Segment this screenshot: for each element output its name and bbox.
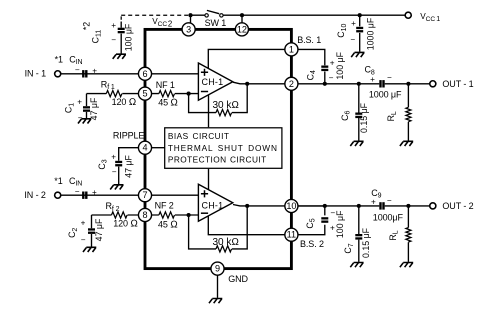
svg-text:−: − (387, 196, 392, 205)
svg-text:NF 2: NF 2 (155, 200, 174, 210)
svg-text:NF 1: NF 1 (156, 80, 175, 90)
svg-text:CIN: CIN (69, 176, 82, 188)
svg-text:C5: C5 (305, 218, 317, 228)
svg-text:−: − (387, 73, 392, 82)
svg-text:+: + (92, 188, 97, 197)
svg-text:−: − (112, 168, 117, 177)
svg-text:6: 6 (142, 69, 147, 79)
svg-text:OUT - 1: OUT - 1 (442, 79, 473, 89)
svg-text:+: + (92, 67, 97, 76)
svg-text:+: + (351, 19, 356, 28)
svg-text:+: + (371, 198, 376, 207)
svg-text:−: − (75, 187, 80, 196)
svg-text:*1: *1 (55, 54, 63, 64)
svg-text:C11: C11 (91, 30, 103, 44)
svg-text:120 Ω: 120 Ω (113, 218, 138, 229)
svg-text:C3: C3 (97, 159, 109, 169)
svg-text:C2: C2 (67, 228, 79, 238)
svg-text:+: + (370, 75, 375, 84)
svg-text:VCC2: VCC2 (152, 17, 172, 28)
svg-text:0.15 μF: 0.15 μF (359, 102, 369, 133)
svg-text:12: 12 (237, 24, 247, 34)
svg-text:30 kΩ: 30 kΩ (213, 237, 240, 248)
svg-text:47 μF: 47 μF (124, 155, 134, 178)
svg-text:45 Ω: 45 Ω (158, 220, 178, 231)
svg-text:−: − (81, 235, 86, 244)
svg-text:*1: *1 (54, 176, 62, 186)
svg-text:−: − (350, 35, 355, 44)
svg-text:45 Ω: 45 Ω (158, 97, 178, 108)
svg-text:C10: C10 (336, 24, 348, 38)
svg-text:BIAS CIRCUIT: BIAS CIRCUIT (168, 131, 229, 141)
svg-text:GND: GND (228, 274, 248, 284)
svg-text:1000μF: 1000μF (373, 213, 404, 223)
svg-text:RL: RL (388, 230, 400, 240)
svg-text:PROTECTION CIRCUIT: PROTECTION CIRCUIT (168, 155, 267, 165)
svg-text:C1: C1 (64, 103, 76, 113)
svg-text:100 μF: 100 μF (124, 23, 134, 51)
svg-text:0.15 μF: 0.15 μF (361, 227, 371, 258)
svg-text:C4: C4 (305, 70, 317, 80)
svg-text:4: 4 (142, 143, 147, 153)
svg-text:+: + (330, 58, 335, 67)
svg-text:CH-1: CH-1 (202, 77, 224, 87)
svg-text:CIN: CIN (69, 54, 82, 66)
svg-text:11: 11 (287, 230, 296, 240)
svg-text:−: − (111, 36, 116, 45)
svg-text:8: 8 (142, 210, 147, 220)
svg-text:5: 5 (142, 89, 147, 99)
svg-text:1: 1 (289, 44, 294, 54)
svg-text:IN - 1: IN - 1 (25, 69, 46, 79)
svg-text:47 μF: 47 μF (89, 97, 99, 120)
svg-text:−: − (329, 73, 334, 82)
svg-text:Rf 1: Rf 1 (101, 80, 115, 92)
svg-text:−: − (75, 65, 80, 74)
svg-text:THERMAL SHUT DOWN: THERMAL SHUT DOWN (168, 143, 278, 153)
svg-text:*2: *2 (82, 22, 92, 30)
svg-text:RIPPLE: RIPPLE (113, 131, 145, 141)
svg-text:10: 10 (286, 201, 296, 211)
svg-text:+: + (81, 219, 86, 228)
svg-text:3: 3 (186, 24, 191, 34)
svg-text:2: 2 (289, 79, 294, 89)
svg-text:100 μF: 100 μF (335, 51, 345, 79)
svg-text:−: − (78, 113, 83, 122)
svg-text:Rf 2: Rf 2 (106, 201, 120, 213)
svg-text:47 μF: 47 μF (94, 218, 104, 241)
svg-text:CH-1: CH-1 (202, 200, 224, 210)
svg-text:RL: RL (386, 111, 398, 121)
svg-text:SW 1: SW 1 (205, 18, 227, 28)
svg-text:+: + (111, 153, 116, 162)
svg-text:1000 μF: 1000 μF (369, 89, 402, 99)
svg-text:C7: C7 (343, 243, 355, 253)
svg-text:9: 9 (215, 264, 220, 274)
svg-text:+: + (111, 21, 116, 30)
svg-text:B.S. 1: B.S. 1 (297, 35, 321, 45)
svg-text:120 Ω: 120 Ω (112, 97, 137, 108)
svg-text:IN - 2: IN - 2 (24, 190, 45, 200)
svg-text:C6: C6 (340, 110, 352, 120)
svg-text:+: + (77, 98, 82, 107)
svg-text:OUT - 2: OUT - 2 (442, 201, 473, 211)
svg-text:30 kΩ: 30 kΩ (213, 100, 240, 111)
svg-text:7: 7 (142, 190, 147, 200)
svg-text:100 μF: 100 μF (335, 210, 345, 238)
svg-text:1000 μF: 1000 μF (365, 17, 375, 50)
svg-text:VCC1: VCC1 (420, 12, 440, 23)
svg-text:B.S. 2: B.S. 2 (300, 239, 324, 249)
